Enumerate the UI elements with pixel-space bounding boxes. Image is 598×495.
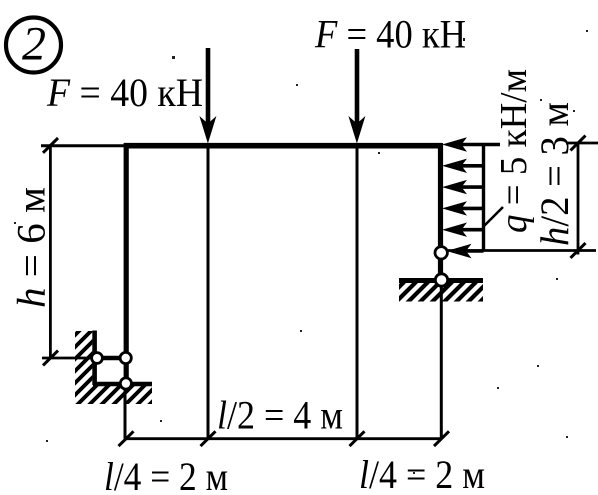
right support extension line to bottom dimension xyxy=(440,287,443,439)
h dim tick top xyxy=(43,138,58,153)
svg-text:h/2 = 3 м: h/2 = 3 м xyxy=(532,102,577,246)
left support roller pin B xyxy=(120,352,131,363)
svg-text:F = 40 кН: F = 40 кН xyxy=(314,12,466,57)
svg-text:2: 2 xyxy=(22,18,46,71)
left support floor line xyxy=(93,382,152,387)
h/2 top extension xyxy=(566,142,598,145)
svg-text:l/4 = 2 м: l/4 = 2 м xyxy=(104,454,228,495)
svg-text:h = 6 м: h = 6 м xyxy=(9,187,54,308)
bottom dimension line xyxy=(125,437,442,440)
svg-text:F = 40 кН: F = 40 кН xyxy=(46,70,203,115)
h/2 bottom extension xyxy=(448,249,596,252)
h dim bottom extension xyxy=(42,357,92,360)
beam top chord xyxy=(124,143,442,149)
svg-text:l/2 = 4 м: l/2 = 4 м xyxy=(217,393,343,438)
svg-text:q = 5 кН/м: q = 5 кН/м xyxy=(493,69,535,233)
left support roller pin C xyxy=(120,378,131,389)
left support roller pin A xyxy=(92,353,103,364)
left support link bar xyxy=(97,356,126,361)
h dim top extension (beam extended left) xyxy=(41,144,124,147)
force F1 arrow xyxy=(199,48,216,144)
left support wall edge xyxy=(92,331,97,386)
distributed load q arrows xyxy=(442,137,500,258)
force F2 extension line to bottom dimension xyxy=(356,148,359,439)
right support ground line xyxy=(399,278,483,283)
bottom dim tick 2 xyxy=(201,431,216,446)
bottom dim tick 4 xyxy=(434,431,449,446)
bottom dim tick 1 xyxy=(119,431,134,446)
right support roller pin lower xyxy=(435,274,447,286)
h dim tick bottom xyxy=(43,351,58,366)
distributed load backbone line xyxy=(482,145,485,252)
left support extension line to bottom dimension xyxy=(124,389,127,439)
h/2 tick bottom xyxy=(571,243,586,258)
left column xyxy=(124,143,129,384)
force F2 arrow xyxy=(348,49,365,144)
right support hatching xyxy=(383,281,501,303)
right support roller pin upper xyxy=(435,247,447,259)
node circle badge "2" xyxy=(6,18,61,73)
dimension h = 6 m : line xyxy=(49,145,52,358)
leader line to q label xyxy=(484,207,503,226)
svg-text:l/4 = 2 м: l/4 = 2 м xyxy=(359,452,485,495)
force F1 extension line to bottom dimension xyxy=(207,148,210,439)
left support hatching xyxy=(4,329,225,406)
dimension h/2 = 3 m : line xyxy=(577,142,580,255)
h/2 tick top xyxy=(571,136,586,151)
bottom dim tick 3 xyxy=(350,431,365,446)
right column xyxy=(438,143,443,280)
